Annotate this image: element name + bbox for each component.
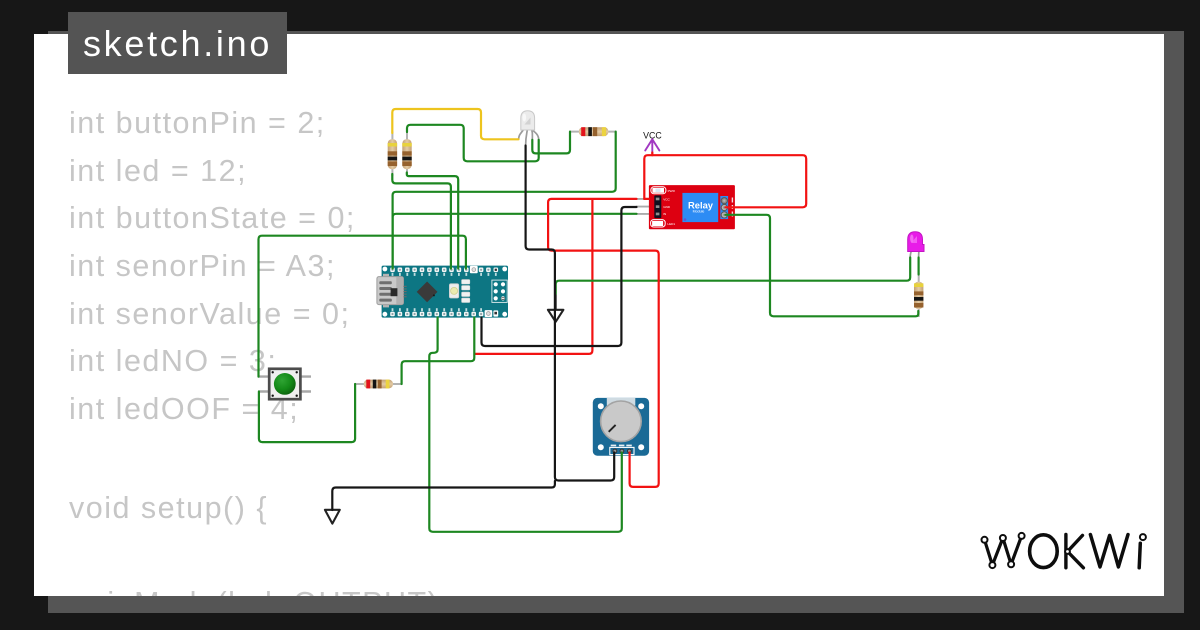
wire green pushbutton to R5 xyxy=(259,384,355,442)
svg-text:IN: IN xyxy=(663,212,666,216)
sketch.ino tab xyxy=(68,12,287,74)
LED LED2 (magenta, right) xyxy=(908,232,924,258)
wire green R2 bottom to nano D9 xyxy=(407,173,458,269)
wire green R2 top to LED1 right pin xyxy=(407,125,539,162)
pushbutton PB1 (green) xyxy=(259,369,311,399)
resistor R4 (vertical, below magenta LED) xyxy=(914,273,923,317)
svg-text:GND: GND xyxy=(663,205,671,209)
wire red relay VCC to pot VCC xyxy=(548,199,659,487)
wire black GND2 to junction xyxy=(332,481,555,510)
wire red VCC symbol stub xyxy=(651,153,653,156)
wire red nano 5V to relay VCC xyxy=(475,200,592,354)
wire green nano A3 to pot SIG xyxy=(429,318,622,532)
relay module RELAY1 xyxy=(636,185,735,229)
wire green R1 bottom to nano D10 xyxy=(392,174,451,269)
wire black nano GND to relay GND xyxy=(482,207,637,346)
wire green nano D12 to relay IN xyxy=(393,214,637,269)
svg-text:PWR: PWR xyxy=(668,189,676,193)
LED LED1 (white, top center) xyxy=(519,111,539,146)
ground symbol GND2 (bottom left) xyxy=(325,510,340,524)
code text lines xyxy=(69,108,326,139)
potentiometer POT1 xyxy=(593,398,649,456)
wire red relay VCC lead stub xyxy=(644,198,649,200)
wire green R5 to nano VIN xyxy=(402,318,475,385)
Arduino Nano U1 board xyxy=(377,266,508,318)
svg-text:VCC: VCC xyxy=(663,197,670,201)
wire green R3 to nano pin D12 xyxy=(393,132,616,269)
wire green LED2 cathode to GND1 xyxy=(556,258,911,294)
resistor R1 (vertical, left) xyxy=(388,132,397,177)
VCC power symbol xyxy=(643,130,662,153)
resistor R5 (horizontal, right of pushbutton) xyxy=(354,380,401,389)
Wokwi logo xyxy=(982,533,1146,568)
svg-text:LED1: LED1 xyxy=(667,222,675,226)
wire green relay NO to R4 xyxy=(726,215,919,316)
wire black LED1 cathode to pot GND xyxy=(526,146,615,481)
resistor R3 (horizontal, top right of white LED) xyxy=(570,127,616,136)
wire green pushbutton to nano D7 xyxy=(259,236,466,377)
wire red VCC to relay COM loop xyxy=(644,155,806,207)
resistor R2 (vertical, left) xyxy=(402,131,411,175)
wire green LED1 right pin to R3 xyxy=(532,132,570,154)
ground symbol GND1 (center) xyxy=(548,294,564,322)
svg-text:Module: Module xyxy=(693,209,705,213)
wire green LED2 anode to R4 top xyxy=(917,258,919,275)
wire yellow R1 to LED1 anode xyxy=(392,109,518,139)
